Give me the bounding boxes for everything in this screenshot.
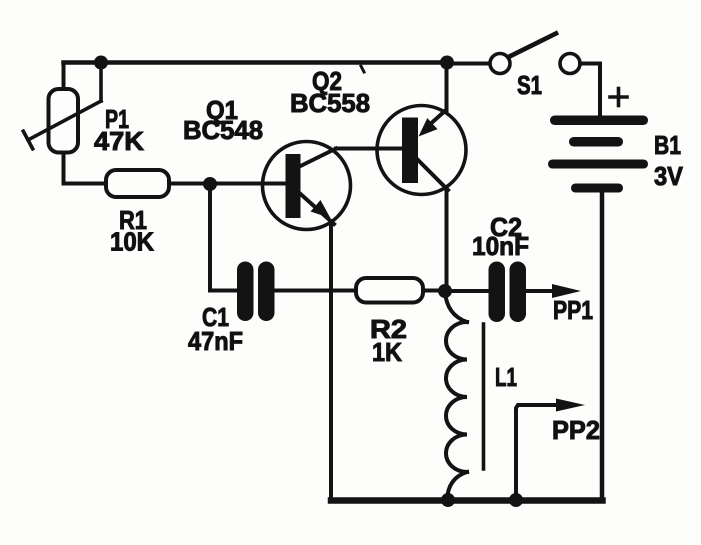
- svg-text:B1: B1: [654, 130, 681, 160]
- node PP1 arrow: [552, 284, 581, 298]
- node B (R1 / Q1 base / C1): [203, 177, 217, 191]
- value 1K: [372, 337, 402, 367]
- wire Q2 collector down to node C: [445, 188, 449, 291]
- wire P1 to R1: [64, 182, 107, 186]
- resistor R2: [356, 278, 423, 303]
- label B1: [654, 130, 681, 160]
- resistor R1: [106, 170, 169, 197]
- wire R2 to node C: [423, 289, 445, 293]
- wire node D to switch: [447, 62, 490, 66]
- transistor Q1: [263, 142, 351, 230]
- label PP1: [553, 295, 593, 325]
- wire node B down to C1: [210, 184, 237, 291]
- node A (top of P1): [94, 56, 108, 70]
- wire C1 to R2: [275, 289, 357, 293]
- node E (L1 to ground rail): [441, 493, 455, 507]
- wire R1 to Q1 base: [169, 182, 286, 186]
- label L1: [495, 362, 517, 392]
- value 47nF: [188, 326, 243, 356]
- stray scan mark: [361, 66, 364, 72]
- inductor L1: [445, 292, 467, 500]
- svg-text:1K: 1K: [372, 337, 402, 367]
- wire C2 to PP1 arrow: [526, 289, 558, 293]
- svg-text:L1: L1: [495, 362, 517, 392]
- svg-text:PP2: PP2: [552, 415, 600, 445]
- value BC548: [183, 115, 263, 145]
- svg-text:10K: 10K: [110, 227, 154, 257]
- label PP2: [552, 415, 600, 445]
- wire Q1 emitter down to ground rail: [329, 222, 333, 500]
- wire PP2 stub: [516, 405, 562, 500]
- node C (R2 / C2 / Q2 collector / L1): [438, 284, 452, 298]
- svg-text:S1: S1: [517, 70, 542, 100]
- label Q2: [312, 66, 342, 96]
- svg-text:BC548: BC548: [183, 115, 263, 145]
- wire Q2 emitter to top rail: [445, 63, 449, 112]
- label R2: [370, 314, 407, 344]
- wire switch to battery: [580, 64, 600, 116]
- value 10K: [110, 227, 154, 257]
- label R1: [119, 205, 147, 235]
- label P1: [105, 104, 129, 134]
- label C2: [490, 212, 522, 242]
- value 3V: [654, 161, 684, 191]
- svg-text:BC558: BC558: [290, 88, 370, 118]
- label S1: [517, 70, 542, 100]
- label C1: [202, 302, 229, 332]
- wire node C to C2: [445, 289, 489, 293]
- value 10nF: [472, 231, 529, 261]
- wire battery negative down right side: [600, 193, 605, 501]
- capacitor C2: [489, 262, 527, 323]
- plus sign: [610, 89, 627, 106]
- value 47K: [94, 126, 144, 156]
- potentiometer P1: [23, 63, 101, 184]
- inductor core line: [482, 324, 486, 469]
- capacitor C1: [237, 262, 275, 322]
- wire Q1 collector to Q2 base: [336, 147, 402, 151]
- switch S1: [490, 34, 580, 74]
- wire ground rail: [331, 497, 603, 504]
- node PP2 arrow: [556, 399, 585, 412]
- svg-text:10nF: 10nF: [472, 231, 529, 261]
- svg-text:3V: 3V: [654, 161, 684, 191]
- node D (top rail / Q2 emitter / S1): [440, 56, 454, 70]
- svg-text:47nF: 47nF: [188, 326, 243, 356]
- battery B1: [548, 116, 648, 193]
- value BC558: [290, 88, 370, 118]
- node F (PP2 stub on ground rail): [509, 493, 523, 507]
- label Q1: [206, 95, 238, 125]
- svg-text:PP1: PP1: [553, 295, 593, 325]
- transistor Q2: [377, 106, 466, 195]
- wire top rail: [64, 60, 448, 65]
- svg-text:47K: 47K: [94, 126, 144, 156]
